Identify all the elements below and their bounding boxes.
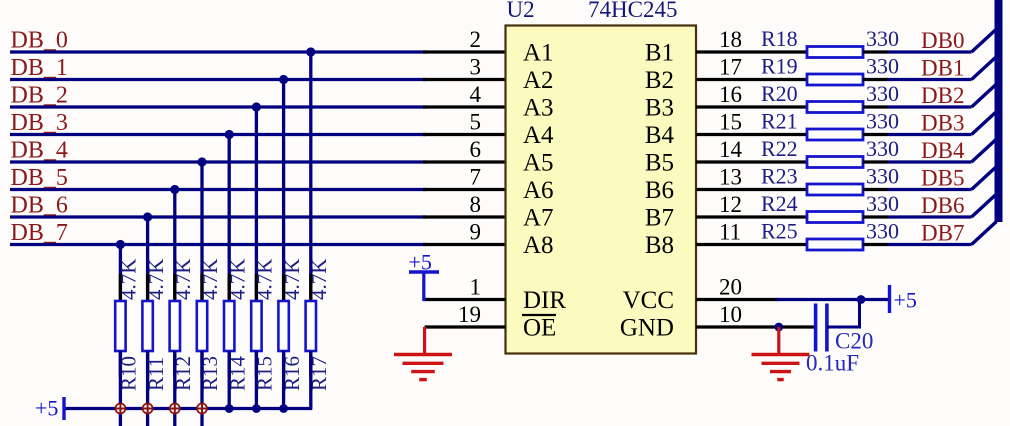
svg-text:B5: B5 (645, 150, 674, 177)
bus entry DB7 (972, 222, 997, 245)
svg-text:DB0: DB0 (921, 28, 964, 53)
R12 bottom pin (173, 350, 176, 378)
pin 4 stub (A3) (423, 105, 506, 108)
wire R16 to +5 rail (282, 351, 285, 409)
svg-text:14: 14 (719, 137, 743, 162)
svg-text:B8: B8 (645, 232, 674, 259)
bus entry DB2 (972, 84, 997, 107)
svg-text:1: 1 (470, 275, 482, 300)
wire GND to C20 (777, 325, 816, 328)
junction GND/ground (774, 323, 783, 332)
svg-text:DB_1: DB_1 (11, 55, 68, 81)
R20 right pin (863, 105, 888, 108)
svg-text:R23: R23 (761, 164, 798, 189)
wire DB_6 horizontal (10, 215, 426, 218)
svg-text:20: 20 (719, 275, 742, 300)
svg-text:DB_7: DB_7 (11, 220, 68, 246)
svg-text:4.7K: 4.7K (117, 259, 141, 300)
svg-text:A1: A1 (523, 40, 554, 67)
svg-text:A5: A5 (523, 150, 554, 177)
svg-text:DB_6: DB_6 (11, 193, 68, 219)
junction DB_7 drop (116, 240, 125, 249)
power +5 port (VCC) (888, 285, 891, 313)
svg-text:13: 13 (719, 165, 742, 190)
R13 top pin (200, 274, 203, 302)
svg-text:74HC245: 74HC245 (588, 0, 677, 22)
resistor R23 body (807, 184, 863, 195)
R16 bottom pin (282, 350, 285, 378)
svg-text:330: 330 (866, 191, 899, 216)
R14 top pin (228, 274, 231, 302)
svg-text:OE: OE (523, 315, 556, 342)
R19 right pin (863, 78, 888, 81)
svg-text:B6: B6 (645, 177, 674, 204)
junction DB_1 drop (279, 75, 288, 84)
svg-text:15: 15 (719, 110, 742, 135)
svg-text:DB4: DB4 (921, 138, 965, 163)
svg-text:330: 330 (866, 54, 899, 79)
R18 right pin (863, 50, 888, 53)
svg-text:330: 330 (866, 26, 899, 51)
wire DB_2 horizontal (10, 105, 426, 108)
ground (OE) (423, 327, 426, 355)
power +5 bar (bottom left) (62, 397, 65, 420)
svg-text:330: 330 (866, 219, 899, 244)
svg-text:DB_0: DB_0 (11, 28, 68, 54)
svg-text:GND: GND (620, 315, 674, 342)
R17 bottom pin (309, 350, 312, 378)
svg-text:0.1uF: 0.1uF (806, 351, 859, 376)
pin 9 stub (A8) (423, 243, 506, 246)
R23 right pin (863, 188, 888, 191)
svg-text:4.7K: 4.7K (225, 259, 249, 300)
svg-text:A2: A2 (523, 67, 554, 94)
svg-text:DB1: DB1 (921, 56, 964, 81)
junction no-ERC marker R10 (115, 404, 125, 414)
wire drop DB_1 vertical (282, 80, 285, 303)
junction DB_4 drop (197, 157, 206, 166)
R11 bottom pin (146, 350, 149, 378)
junction R15 rail (252, 404, 261, 413)
junction DB_3 drop (225, 130, 234, 139)
wire R10 to +5 rail (119, 351, 122, 426)
R15 top pin (255, 274, 258, 302)
pin 10 stub (GND) (696, 325, 779, 328)
wire R14 to +5 rail (228, 351, 231, 409)
R12 top pin (173, 274, 176, 302)
R11 top pin (146, 274, 149, 302)
svg-text:4.7K: 4.7K (171, 259, 195, 300)
wire drop DB_0 vertical (309, 52, 312, 303)
svg-text:330: 330 (866, 109, 899, 134)
resistor R16 body (278, 301, 288, 351)
wire DB_0 horizontal (10, 50, 426, 53)
wire DB_3 horizontal (10, 133, 426, 136)
svg-text:4.7K: 4.7K (253, 259, 277, 300)
pin 7 stub (A6) (423, 188, 506, 191)
svg-text:6: 6 (470, 137, 482, 162)
bus entry DB6 (972, 194, 997, 217)
wire DB_4 horizontal (10, 160, 426, 163)
svg-text:4: 4 (470, 82, 482, 107)
junction DB_2 drop (252, 102, 261, 111)
bus entry DB1 (972, 57, 997, 80)
wire R24 to bus entry (888, 215, 972, 218)
wire R22 to bus entry (888, 160, 972, 163)
junction DB_6 drop (143, 212, 152, 221)
R21 right pin (863, 133, 888, 136)
svg-text:U2: U2 (507, 0, 535, 22)
wire DB_1 horizontal (10, 78, 426, 81)
svg-text:2: 2 (470, 27, 482, 52)
wire R12 to +5 rail (173, 351, 176, 426)
svg-text:A7: A7 (523, 205, 554, 232)
R24 right pin (863, 215, 888, 218)
R17 top pin (309, 274, 312, 302)
wire R20 to bus entry (888, 105, 972, 108)
wire R13 to +5 rail (200, 351, 203, 426)
svg-text:+5: +5 (409, 250, 432, 275)
resistor R11 body (142, 301, 152, 351)
resistor R22 body (807, 157, 863, 168)
svg-text:330: 330 (866, 136, 899, 161)
svg-text:DB3: DB3 (921, 111, 964, 136)
resistor R20 body (807, 102, 863, 113)
pin 19 stub (OE) (425, 325, 506, 328)
svg-text:DB_2: DB_2 (11, 83, 68, 109)
svg-text:DB2: DB2 (921, 83, 964, 108)
svg-text:A4: A4 (523, 122, 554, 149)
svg-text:B3: B3 (645, 95, 674, 122)
svg-text:10: 10 (719, 302, 742, 327)
svg-text:A3: A3 (523, 95, 554, 122)
svg-text:+5: +5 (894, 288, 917, 313)
svg-text:R19: R19 (761, 54, 798, 79)
svg-text:B4: B4 (645, 122, 675, 149)
svg-text:B7: B7 (645, 205, 674, 232)
pin 17 stub + R19 left pin (696, 78, 807, 81)
pin 15 stub + R21 left pin (696, 133, 807, 136)
svg-text:DB_5: DB_5 (11, 165, 68, 191)
resistor R21 body (807, 129, 863, 140)
wire R18 to bus entry (888, 50, 972, 53)
R10 bottom pin (119, 350, 122, 378)
wire R23 to bus entry (888, 188, 972, 191)
wire drop DB_6 vertical (146, 217, 149, 303)
svg-text:4.7K: 4.7K (280, 259, 304, 300)
wire R17 to +5 rail (309, 351, 312, 409)
bus DB[0..7] (995, 0, 1003, 222)
svg-text:330: 330 (866, 164, 899, 189)
svg-text:R25: R25 (761, 219, 798, 244)
pin 3 stub (A2) (423, 78, 506, 81)
wire C20 to +5 (827, 300, 861, 328)
pin 14 stub + R22 left pin (696, 160, 807, 163)
svg-text:R18: R18 (761, 26, 798, 51)
pin 18 stub + R18 left pin (696, 50, 807, 53)
bus entry DB3 (972, 112, 997, 135)
wire R19 to bus entry (888, 78, 972, 81)
svg-text:R22: R22 (761, 136, 798, 161)
bus entry DB0 (972, 29, 997, 52)
wire DB_7 horizontal (10, 243, 426, 246)
power +5 port (DIR) (409, 270, 439, 273)
svg-text:12: 12 (719, 192, 742, 217)
junction DB_5 drop (170, 185, 179, 194)
wire R25 to bus entry (888, 243, 972, 246)
R15 bottom pin (255, 350, 258, 378)
pin 11 stub + R25 left pin (696, 243, 807, 246)
svg-text:R24: R24 (761, 191, 798, 216)
svg-text:7: 7 (470, 165, 482, 190)
wire drop DB_5 vertical (173, 190, 176, 303)
wire drop DB_7 vertical (119, 245, 122, 303)
R13 bottom pin (200, 350, 203, 378)
resistor R10 body (115, 301, 125, 351)
wire DB_5 horizontal (10, 188, 426, 191)
svg-text:17: 17 (719, 55, 742, 80)
pin 8 stub (A7) (423, 215, 506, 218)
pin 12 stub + R24 left pin (696, 215, 807, 218)
resistor R18 body (807, 47, 863, 58)
junction no-ERC marker R12 (170, 404, 180, 414)
wire R15 to +5 rail (255, 351, 258, 409)
capacitor C20 (814, 304, 818, 352)
svg-text:DB_3: DB_3 (11, 110, 68, 136)
svg-text:11: 11 (719, 220, 741, 245)
svg-text:DB_4: DB_4 (11, 138, 68, 164)
wire drop DB_3 vertical (228, 135, 231, 303)
svg-text:5: 5 (470, 110, 482, 135)
junction R16 rail (279, 404, 288, 413)
svg-text:A8: A8 (523, 232, 554, 259)
resistor R13 body (197, 301, 207, 351)
op IC U2 74HC245 body (506, 26, 697, 354)
junction no-ERC marker R13 (197, 404, 207, 414)
pin 20 stub (VCC) (696, 298, 779, 301)
svg-text:16: 16 (719, 82, 742, 107)
resistor R24 body (807, 212, 863, 223)
svg-text:9: 9 (470, 220, 482, 245)
wire R21 to bus entry (888, 133, 972, 136)
svg-text:18: 18 (719, 27, 742, 52)
svg-text:4.7K: 4.7K (198, 259, 222, 300)
resistor R15 body (251, 301, 261, 351)
svg-text:3: 3 (470, 55, 482, 80)
resistor R12 body (170, 301, 180, 351)
R25 right pin (863, 243, 888, 246)
wire drop DB_2 vertical (255, 107, 258, 303)
svg-text:R20: R20 (761, 81, 798, 106)
junction DB_0 drop (306, 47, 315, 56)
svg-text:A6: A6 (523, 177, 554, 204)
ground (C20) (777, 327, 780, 355)
pin 6 stub (A5) (423, 160, 506, 163)
resistor R25 body (807, 239, 863, 250)
svg-text:DB5: DB5 (921, 166, 964, 191)
pin 13 stub + R23 left pin (696, 188, 807, 191)
svg-text:DIR: DIR (523, 287, 566, 314)
resistor R17 body (306, 301, 316, 351)
svg-text:8: 8 (470, 192, 482, 217)
bus entry DB4 (972, 139, 997, 162)
wire VCC to +5 (777, 298, 890, 301)
wire R11 to +5 rail (146, 351, 149, 426)
junction no-ERC marker R11 (143, 404, 153, 414)
junction R14 rail (225, 404, 234, 413)
svg-text:4.7K: 4.7K (144, 259, 168, 300)
R14 bottom pin (228, 350, 231, 378)
svg-text:330: 330 (866, 81, 899, 106)
R16 top pin (282, 274, 285, 302)
pin 5 stub (A4) (423, 133, 506, 136)
svg-text:19: 19 (458, 302, 481, 327)
wire drop DB_4 vertical (200, 162, 203, 303)
pin 16 stub + R20 left pin (696, 105, 807, 108)
R22 right pin (863, 160, 888, 163)
svg-text:DB6: DB6 (921, 193, 964, 218)
resistor R14 body (224, 301, 234, 351)
svg-text:VCC: VCC (623, 287, 674, 314)
junction VCC/C20 (857, 295, 866, 304)
resistor R19 body (807, 74, 863, 85)
svg-text:+5: +5 (35, 396, 58, 421)
svg-text:R21: R21 (761, 109, 798, 134)
svg-text:4.7K: 4.7K (307, 259, 331, 300)
bus entry DB5 (972, 167, 997, 190)
svg-text:DB7: DB7 (921, 221, 964, 246)
svg-text:B1: B1 (645, 40, 674, 67)
R10 top pin (119, 274, 122, 302)
pin 2 stub (A1) (423, 50, 506, 53)
wire +5 rail (64, 407, 312, 410)
svg-text:B2: B2 (645, 67, 674, 94)
pin 1 stub (DIR) (423, 298, 506, 301)
